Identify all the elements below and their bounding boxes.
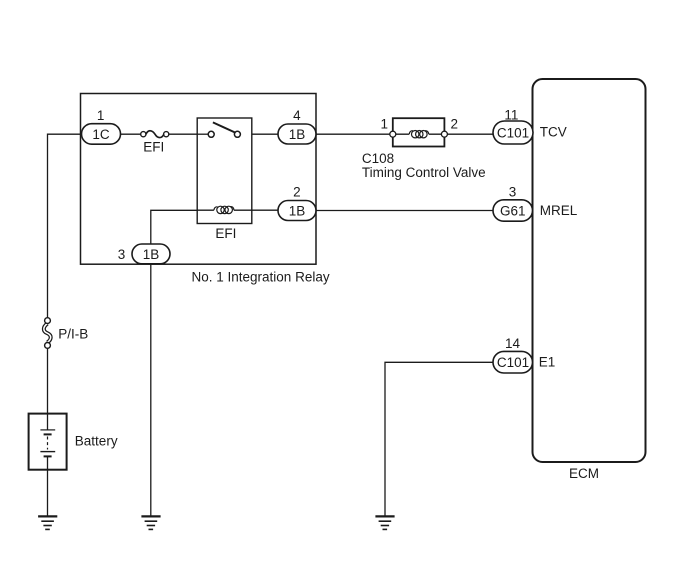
relay inner box (contact+coil unit)	[197, 118, 252, 224]
svg-text:14: 14	[505, 336, 521, 351]
wire: C108 to C101 pin 11	[447, 133, 493, 135]
battery	[29, 414, 118, 470]
wire inside inner box: switch row	[197, 133, 208, 135]
svg-text:2: 2	[293, 185, 301, 200]
connector G61 oval	[493, 200, 533, 221]
svg-text:No. 1 Integration Relay: No. 1 Integration Relay	[192, 270, 330, 285]
pin 1C oval	[82, 124, 121, 145]
svg-text:ECM: ECM	[569, 466, 599, 481]
wire: coil to pin 2	[234, 209, 278, 211]
connector C101 pin 14 oval	[493, 351, 533, 373]
battery plate short -	[44, 455, 52, 457]
svg-text:C108: C108	[362, 151, 394, 166]
svg-text:Battery: Battery	[75, 434, 118, 449]
wire: relay coil row to pin 3 riser	[151, 210, 214, 244]
pin 4 oval	[278, 124, 316, 144]
wire: pin 2 to G61	[316, 210, 493, 212]
svg-text:1B: 1B	[289, 203, 306, 218]
C108 inductor	[409, 131, 428, 138]
svg-text:4: 4	[293, 108, 301, 123]
wire: fuse row inside relay	[121, 133, 142, 135]
pin 2 oval	[278, 201, 316, 221]
battery plate short -	[44, 433, 52, 435]
svg-text:E1: E1	[539, 355, 556, 370]
C108 terminal 1	[390, 131, 396, 137]
connector C101 pin 11 oval	[493, 121, 533, 144]
svg-text:EFI: EFI	[215, 226, 236, 241]
wire into battery	[47, 414, 49, 430]
svg-text:G61: G61	[500, 203, 526, 218]
wire: pin 1C to left rail down to battery	[48, 134, 82, 516]
svg-text:P/I-B: P/I-B	[58, 327, 88, 342]
wire code P/I-B twisted section	[44, 318, 88, 349]
svg-text:3: 3	[509, 184, 517, 199]
wire: pin 3 down to ground	[150, 264, 152, 516]
ground (battery)	[38, 516, 57, 529]
ground (relay pin 3)	[141, 516, 160, 529]
wire out of battery	[47, 456, 49, 469]
svg-text:11: 11	[504, 107, 518, 122]
svg-text:3: 3	[118, 247, 126, 262]
svg-text:1C: 1C	[92, 127, 110, 142]
ground (E1)	[375, 516, 394, 529]
relay outer box	[81, 94, 317, 265]
relay switch blade	[213, 122, 235, 132]
svg-text:EFI: EFI	[143, 139, 164, 154]
svg-text:1: 1	[97, 108, 105, 123]
svg-text:Timing Control Valve: Timing Control Valve	[362, 165, 486, 180]
relay switch contacts	[208, 131, 214, 137]
svg-text:C101: C101	[497, 125, 529, 140]
pin 3 oval	[132, 244, 170, 264]
wire: switch to pin 4	[240, 133, 278, 135]
svg-text:C101: C101	[497, 355, 529, 370]
battery plate long +	[40, 429, 55, 431]
svg-text:1B: 1B	[289, 127, 306, 142]
svg-text:MREL: MREL	[540, 203, 578, 218]
wire inside inner box: coil row	[197, 209, 252, 211]
battery plate long +	[40, 451, 55, 453]
wire: E1 to ground	[385, 362, 493, 516]
wire inside C108	[393, 133, 445, 135]
svg-text:TCV: TCV	[540, 125, 567, 140]
fuse EFI	[141, 131, 169, 138]
svg-text:1B: 1B	[143, 247, 160, 262]
C108 terminal 2	[441, 131, 447, 137]
wire: pin 4 to C108	[316, 133, 390, 135]
relay coil EFI	[214, 206, 234, 213]
C108 box	[393, 118, 445, 146]
svg-text:2: 2	[450, 116, 458, 131]
battery dashed link	[47, 437, 49, 450]
ECM box	[533, 79, 646, 462]
svg-text:1: 1	[380, 117, 388, 132]
